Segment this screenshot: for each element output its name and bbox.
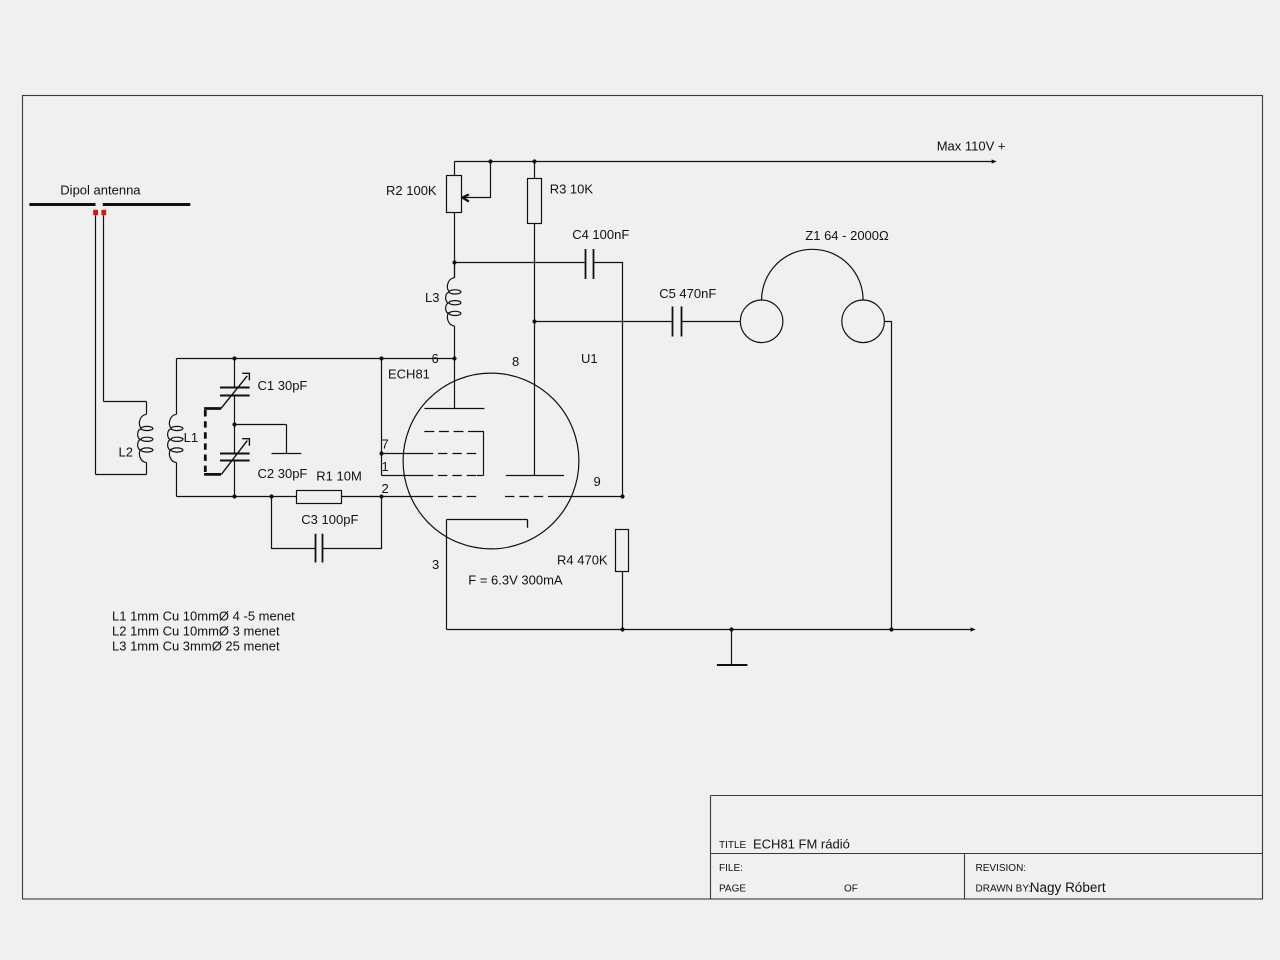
svg-text:U1: U1 (581, 351, 598, 366)
svg-text:DRAWN BY:: DRAWN BY: (976, 884, 1032, 895)
B+ rail (455, 161, 993, 163)
node C3 left junction (269, 494, 273, 498)
wire tank top rail (177, 358, 455, 360)
gang coupling dashed bracket (204, 409, 221, 475)
node pin8 junction (532, 319, 536, 323)
inductor L1 (176, 359, 178, 415)
capacitor C5 470nF (673, 307, 682, 337)
svg-text:R4 470K: R4 470K (557, 552, 608, 567)
svg-text:R2 100K: R2 100K (386, 183, 437, 198)
headphones Z1 (740, 300, 783, 343)
svg-text:C1 30pF: C1 30pF (258, 378, 308, 393)
tube U1 ECH81 envelope (403, 373, 579, 549)
wire antenna right down (103, 215, 105, 401)
node grid-box top junction (379, 356, 383, 360)
svg-text:ECH81: ECH81 (388, 367, 430, 382)
capacitor C2 (variable) (234, 425, 236, 453)
node C3 right junction (379, 494, 383, 498)
ground rail (447, 629, 972, 631)
svg-text:1: 1 (382, 459, 389, 474)
svg-text:L3 1mm Cu 3mmØ 25 menet: L3 1mm Cu 3mmØ 25 menet (112, 638, 280, 653)
wire pin8 node to C5 (535, 321, 673, 323)
dipole antenna A1 (29, 203, 190, 206)
antenna terminal red right (101, 210, 106, 215)
node R4 ground junction (620, 627, 624, 631)
node C2 bottom junction (232, 494, 236, 498)
svg-text:8: 8 (512, 354, 519, 369)
svg-text:Dipol antenna: Dipol antenna (60, 183, 141, 198)
node pin6/anode junction (452, 356, 456, 360)
svg-text:L1: L1 (184, 430, 198, 445)
node R3 top junction (532, 159, 536, 163)
wire tank bottom rail (177, 496, 382, 498)
node L3 top junction (452, 260, 456, 264)
triode anode (506, 475, 564, 477)
svg-text:F = 6.3V 300mA: F = 6.3V 300mA (468, 573, 563, 588)
svg-text:3: 3 (432, 557, 439, 572)
wire gimmick stub (235, 425, 302, 454)
pin 2 wire and grids (382, 496, 434, 498)
svg-text:C5 470nF: C5 470nF (659, 286, 716, 301)
svg-text:C2 30pF: C2 30pF (258, 466, 308, 481)
svg-text:PAGE: PAGE (719, 884, 746, 895)
resistor R4 470K (616, 530, 629, 572)
node ground junction (729, 627, 733, 631)
inductor L2 (146, 402, 148, 415)
pin 7 wire and grid (382, 453, 434, 455)
svg-text:ECH81 FM rádió: ECH81 FM rádió (753, 837, 850, 852)
node junction C1-C2 (232, 422, 236, 426)
node wiper junction (488, 159, 492, 163)
resistor R1 10M (297, 491, 342, 504)
node pin9/R4 junction (620, 494, 624, 498)
svg-text:C4 100nF: C4 100nF (572, 227, 629, 242)
svg-text:R1 10M: R1 10M (316, 468, 362, 483)
title block (711, 796, 1263, 899)
svg-text:REVISION:: REVISION: (976, 863, 1027, 874)
cathode (447, 520, 528, 528)
svg-text:2: 2 (382, 481, 389, 496)
svg-text:FILE:: FILE: (719, 863, 743, 874)
heptode anode (454, 359, 456, 409)
svg-text:L3: L3 (425, 290, 439, 305)
inductor L3 (454, 263, 456, 278)
node pin7 junction (379, 451, 383, 455)
svg-text:L1 1mm Cu 10mmØ 4 -5 menet: L1 1mm Cu 10mmØ 4 -5 menet (112, 608, 295, 623)
svg-text:R3 10K: R3 10K (550, 181, 594, 196)
svg-text:Nagy Róbert: Nagy Róbert (1030, 880, 1106, 895)
antenna terminal red left (93, 210, 98, 215)
capacitor C4 100nF (455, 262, 585, 264)
capacitor C1 (variable) (234, 359, 236, 387)
svg-text:L2 1mm Cu 10mmØ 3 menet: L2 1mm Cu 10mmØ 3 menet (112, 623, 280, 638)
svg-text:9: 9 (594, 474, 601, 489)
svg-text:TITLE: TITLE (719, 840, 747, 851)
svg-text:6: 6 (432, 351, 439, 366)
ground symbol (731, 630, 733, 666)
wire antenna left down (95, 215, 97, 474)
resistor R3 10K (534, 162, 536, 179)
svg-text:Z1 64 - 2000Ω: Z1 64 - 2000Ω (805, 228, 889, 243)
wire L2 top (104, 401, 147, 403)
svg-text:OF: OF (844, 884, 858, 895)
capacitor C3 100pF (272, 497, 382, 549)
pin 1 wire and grid (382, 359, 434, 476)
node C1 top junction (232, 356, 236, 360)
node headphone return junction (889, 627, 893, 631)
heptode grid g2 (dashed) (424, 431, 477, 433)
svg-text:C3 100pF: C3 100pF (301, 512, 358, 527)
svg-text:L2: L2 (119, 445, 133, 460)
svg-text:7: 7 (382, 437, 389, 452)
potentiometer R2 100K (454, 162, 456, 176)
svg-text:Max 110V +: Max 110V + (937, 139, 1006, 154)
wire L2 bottom (96, 474, 147, 476)
